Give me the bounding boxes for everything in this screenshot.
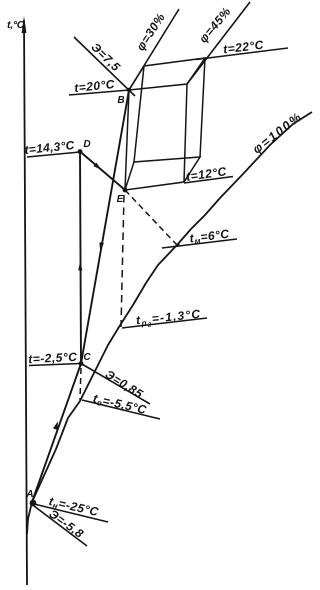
svg-text:C: C — [83, 352, 91, 363]
point A — [30, 500, 37, 507]
process line B->C with arrow — [81, 90, 129, 364]
svg-text:E: E — [117, 194, 124, 205]
t0=-5,5°C underline — [82, 400, 160, 419]
point tM — [176, 243, 179, 246]
process line D->E with arrow — [80, 152, 125, 191]
enthalpy line E=0,85 from C — [81, 364, 150, 405]
box (parallelepiped) top face — [125, 58, 205, 190]
dashed vertical C down to curve — [80, 368, 81, 400]
isotherm t=12°C underline — [184, 177, 233, 184]
phi=30% line through B — [129, 9, 179, 90]
svg-text:t=-2,5°C: t=-2,5°C — [28, 350, 78, 367]
svg-text:D: D — [83, 139, 90, 150]
box vertical edges — [125, 90, 129, 190]
enthalpy line E=-5,8 from A — [34, 506, 87, 546]
process line C->D vertical with up arrow — [80, 152, 81, 364]
dashed line E -> tM point — [125, 190, 177, 245]
isotherm t=14,3°C underline to D — [27, 152, 80, 157]
process line A->C with arrow — [32, 364, 81, 503]
svg-text:t,°C: t,°C — [7, 19, 25, 31]
point D — [78, 149, 83, 154]
axis t,°C vertical with arrow — [24, 20, 27, 585]
enthalpy line E=7.5 through B — [74, 37, 135, 96]
point B — [127, 88, 131, 92]
phi=45% line through box corner — [187, 2, 250, 84]
point E — [123, 188, 128, 193]
isotherm t=20°C underline to B — [69, 90, 129, 95]
isotherm t=-2,5°C underline to C — [29, 364, 81, 366]
tp2=-1,3°C underline — [122, 318, 207, 328]
box bottom face — [125, 157, 200, 190]
phi=100% curve — [27, 112, 312, 534]
axis arrowhead — [22, 16, 27, 33]
point C — [79, 361, 84, 366]
svg-text:A: A — [25, 489, 33, 500]
isotherm t=22°C underline — [196, 48, 288, 60]
dashed vertical E down to curve — [121, 195, 124, 327]
tM=6°C underline — [162, 239, 237, 248]
svg-text:B: B — [117, 95, 124, 106]
tH=-25°C underline from A — [34, 504, 108, 522]
